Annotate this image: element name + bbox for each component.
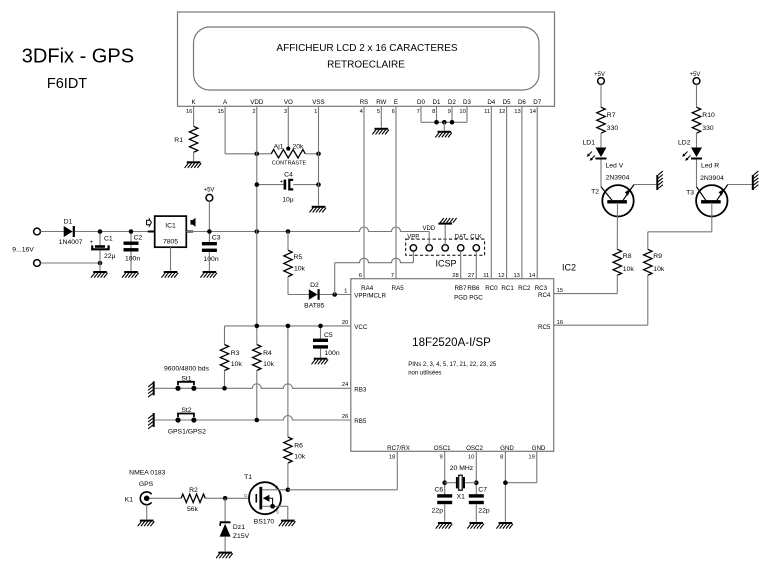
svg-text:100n: 100n bbox=[125, 256, 140, 263]
svg-text:R1: R1 bbox=[174, 137, 183, 144]
svg-text:22µ: 22µ bbox=[104, 253, 116, 260]
svg-text:10k: 10k bbox=[623, 266, 635, 273]
svg-text:GPS1/GPS2: GPS1/GPS2 bbox=[168, 428, 206, 435]
svg-text:10k: 10k bbox=[294, 453, 306, 460]
svg-text:BS170: BS170 bbox=[254, 519, 275, 526]
svg-text:+: + bbox=[89, 240, 93, 246]
svg-text:D6: D6 bbox=[518, 99, 526, 106]
svg-text:2N3904: 2N3904 bbox=[606, 174, 630, 181]
svg-text:RETROECLAIRE: RETROECLAIRE bbox=[327, 60, 405, 71]
svg-text:CLK: CLK bbox=[470, 234, 482, 240]
svg-text:RC7/RX: RC7/RX bbox=[387, 445, 410, 452]
svg-text:DAT: DAT bbox=[455, 234, 467, 240]
svg-text:VDD: VDD bbox=[422, 226, 435, 232]
svg-text:13: 13 bbox=[513, 273, 519, 279]
svg-text:E: E bbox=[394, 99, 398, 106]
svg-text:22p: 22p bbox=[478, 508, 490, 515]
svg-text:24: 24 bbox=[342, 382, 349, 388]
svg-text:7: 7 bbox=[417, 109, 420, 115]
svg-text:10k: 10k bbox=[263, 361, 275, 368]
svg-text:IC1: IC1 bbox=[165, 222, 176, 229]
svg-text:ICSP: ICSP bbox=[435, 259, 456, 269]
svg-text:GPS: GPS bbox=[139, 481, 154, 488]
svg-text:RB6: RB6 bbox=[467, 285, 480, 292]
svg-text:R5: R5 bbox=[294, 254, 303, 261]
svg-text:6: 6 bbox=[392, 109, 395, 115]
svg-text:14: 14 bbox=[530, 109, 537, 115]
svg-text:5: 5 bbox=[377, 109, 380, 115]
svg-text:8: 8 bbox=[432, 109, 435, 115]
svg-text:C2: C2 bbox=[134, 235, 143, 242]
svg-text:28: 28 bbox=[452, 273, 458, 279]
svg-text:1N4007: 1N4007 bbox=[59, 239, 83, 246]
svg-text:VCC: VCC bbox=[354, 324, 368, 331]
svg-text:3DFix - GPS: 3DFix - GPS bbox=[22, 46, 134, 68]
svg-text:10k: 10k bbox=[653, 266, 665, 273]
svg-text:7: 7 bbox=[391, 273, 394, 279]
svg-text:GND: GND bbox=[532, 445, 546, 452]
svg-text:RA5: RA5 bbox=[392, 285, 405, 292]
svg-text:9: 9 bbox=[439, 454, 442, 460]
svg-text:AFFICHEUR LCD 2 x 16 CARACTERE: AFFICHEUR LCD 2 x 16 CARACTERES bbox=[276, 43, 457, 54]
svg-text:D5: D5 bbox=[503, 99, 511, 106]
svg-text:R7: R7 bbox=[607, 112, 616, 119]
svg-text:VDD: VDD bbox=[250, 99, 264, 106]
svg-text:R6: R6 bbox=[294, 442, 303, 449]
svg-text:+5V: +5V bbox=[690, 72, 701, 78]
svg-text:BAT85: BAT85 bbox=[304, 303, 324, 310]
svg-text:C4: C4 bbox=[284, 172, 293, 179]
svg-text:330: 330 bbox=[607, 125, 619, 132]
svg-text:R9: R9 bbox=[653, 253, 662, 260]
svg-text:10k: 10k bbox=[231, 361, 243, 368]
svg-text:D2: D2 bbox=[310, 282, 319, 289]
svg-text:RA4: RA4 bbox=[361, 285, 374, 292]
svg-text:D1: D1 bbox=[433, 99, 441, 106]
svg-text:G: G bbox=[244, 493, 248, 498]
svg-text:330: 330 bbox=[702, 125, 714, 132]
svg-text:26: 26 bbox=[342, 414, 348, 420]
svg-text:C5: C5 bbox=[324, 332, 333, 339]
svg-text:+: + bbox=[280, 180, 284, 186]
svg-text:RS: RS bbox=[360, 99, 369, 106]
svg-text:18: 18 bbox=[389, 454, 395, 460]
svg-text:R8: R8 bbox=[623, 253, 632, 260]
svg-text:VPP: VPP bbox=[407, 234, 419, 240]
svg-text:R3: R3 bbox=[231, 350, 240, 357]
svg-text:F6IDT: F6IDT bbox=[47, 76, 87, 92]
svg-text:R10: R10 bbox=[702, 112, 715, 119]
svg-text:LD1: LD1 bbox=[583, 140, 596, 147]
svg-text:11: 11 bbox=[483, 273, 489, 279]
svg-text:R4: R4 bbox=[263, 350, 272, 357]
svg-text:14: 14 bbox=[529, 273, 536, 279]
svg-text:C6: C6 bbox=[434, 486, 443, 493]
svg-text:S: S bbox=[276, 510, 279, 515]
svg-text:RB3: RB3 bbox=[354, 386, 367, 393]
svg-text:RC3: RC3 bbox=[535, 285, 548, 292]
svg-text:Aj1: Aj1 bbox=[274, 144, 284, 151]
svg-text:VO: VO bbox=[284, 99, 293, 106]
svg-text:27: 27 bbox=[468, 273, 474, 279]
svg-text:LD2: LD2 bbox=[678, 140, 691, 147]
svg-text:RC1: RC1 bbox=[501, 285, 514, 292]
svg-text:RC2: RC2 bbox=[518, 285, 531, 292]
svg-text:GND: GND bbox=[500, 445, 514, 452]
svg-text:100n: 100n bbox=[204, 256, 219, 263]
svg-text:D0: D0 bbox=[417, 99, 425, 106]
svg-text:VSS: VSS bbox=[312, 99, 324, 106]
svg-text:Led R: Led R bbox=[701, 163, 719, 170]
svg-text:10: 10 bbox=[459, 109, 465, 115]
svg-text:Z15V: Z15V bbox=[233, 533, 250, 540]
svg-text:PGD PGC: PGD PGC bbox=[454, 294, 483, 301]
svg-text:D7: D7 bbox=[533, 99, 541, 106]
svg-text:+5V: +5V bbox=[594, 72, 605, 78]
svg-text:6: 6 bbox=[359, 273, 362, 279]
svg-text:CONTRASTE: CONTRASTE bbox=[272, 161, 307, 167]
svg-text:9: 9 bbox=[448, 109, 451, 115]
svg-text:Dz1: Dz1 bbox=[233, 524, 245, 531]
svg-text:19: 19 bbox=[528, 454, 534, 460]
svg-text:RW: RW bbox=[376, 99, 386, 106]
svg-text:3: 3 bbox=[284, 109, 287, 115]
svg-text:9600/4800 bds: 9600/4800 bds bbox=[164, 365, 210, 372]
svg-text:16: 16 bbox=[186, 109, 192, 115]
svg-text:RB7: RB7 bbox=[454, 285, 467, 292]
svg-text:non utilisées: non utilisées bbox=[408, 371, 441, 377]
svg-text:13: 13 bbox=[514, 109, 520, 115]
svg-text:15: 15 bbox=[217, 109, 223, 115]
svg-text:D3: D3 bbox=[463, 99, 471, 106]
svg-text:T2: T2 bbox=[591, 188, 599, 195]
svg-text:56k: 56k bbox=[187, 506, 199, 513]
svg-text:10µ: 10µ bbox=[282, 197, 294, 204]
svg-text:10k: 10k bbox=[294, 266, 306, 273]
svg-text:St1: St1 bbox=[181, 375, 191, 382]
svg-text:RC0: RC0 bbox=[485, 285, 498, 292]
svg-text:PINs 2, 3, 4, 5, 17, 21, 22, 2: PINs 2, 3, 4, 5, 17, 21, 22, 23, 25 bbox=[408, 362, 497, 368]
svg-text:NMEA 0183: NMEA 0183 bbox=[129, 469, 165, 476]
svg-text:20: 20 bbox=[342, 320, 348, 326]
svg-text:D4: D4 bbox=[487, 99, 495, 106]
svg-text:C1: C1 bbox=[104, 236, 113, 243]
svg-text:20k: 20k bbox=[293, 144, 305, 151]
svg-text:1: 1 bbox=[344, 288, 347, 294]
svg-text:RC5: RC5 bbox=[538, 324, 551, 331]
svg-text:22p: 22p bbox=[432, 508, 444, 515]
svg-text:Led V: Led V bbox=[606, 163, 624, 170]
svg-text:18F2520A-I/SP: 18F2520A-I/SP bbox=[412, 337, 491, 349]
svg-text:T3: T3 bbox=[686, 189, 694, 196]
svg-text:T1: T1 bbox=[244, 474, 252, 481]
svg-text:2N3904: 2N3904 bbox=[700, 175, 724, 182]
svg-text:8: 8 bbox=[500, 454, 503, 460]
svg-text:D2: D2 bbox=[448, 99, 456, 106]
svg-text:St2: St2 bbox=[181, 407, 191, 414]
svg-text:X1: X1 bbox=[457, 493, 466, 500]
svg-text:20 MHz: 20 MHz bbox=[450, 465, 474, 472]
svg-text:OSC1: OSC1 bbox=[434, 445, 451, 452]
svg-text:+5V: +5V bbox=[204, 188, 215, 194]
svg-text:2: 2 bbox=[252, 109, 255, 115]
svg-text:12: 12 bbox=[498, 273, 504, 279]
svg-text:100n: 100n bbox=[325, 350, 340, 357]
svg-text:RB5: RB5 bbox=[354, 418, 367, 425]
svg-text:VPP/MCLR: VPP/MCLR bbox=[354, 293, 386, 300]
svg-text:K1: K1 bbox=[125, 497, 134, 504]
svg-text:9...16V: 9...16V bbox=[12, 246, 34, 253]
svg-text:11: 11 bbox=[484, 109, 490, 115]
svg-text:D1: D1 bbox=[64, 219, 73, 226]
svg-text:7805: 7805 bbox=[163, 239, 178, 246]
svg-text:10: 10 bbox=[468, 454, 474, 460]
svg-text:OSC2: OSC2 bbox=[466, 445, 483, 452]
svg-text:IC2: IC2 bbox=[562, 263, 576, 273]
svg-text:C3: C3 bbox=[212, 235, 221, 242]
svg-text:1: 1 bbox=[314, 109, 317, 115]
svg-text:C7: C7 bbox=[478, 486, 487, 493]
svg-text:R2: R2 bbox=[189, 487, 198, 494]
svg-text:RC4: RC4 bbox=[538, 292, 551, 299]
svg-text:12: 12 bbox=[499, 109, 505, 115]
